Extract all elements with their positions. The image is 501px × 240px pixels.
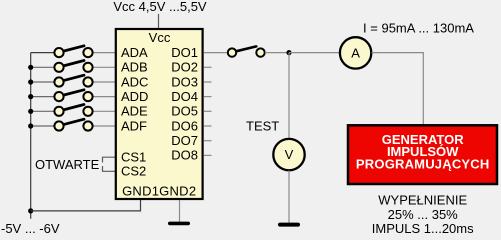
wire voltmeter to ground	[288, 171, 290, 224]
wire S4 to ADD	[94, 96, 116, 98]
svg-text:DO1: DO1	[171, 45, 198, 60]
junction on bus at GND return	[28, 208, 33, 213]
pin DO2 stub	[204, 66, 212, 68]
pin DO6 stub	[204, 125, 212, 127]
svg-text:ADC: ADC	[121, 74, 148, 89]
junction node at voltmeter tap	[286, 50, 291, 55]
wire bus to S4	[31, 96, 55, 98]
pin DO4 stub	[204, 96, 212, 98]
junction on bus at S5	[28, 109, 33, 114]
wire junction down to voltmeter	[288, 53, 290, 139]
switch S3	[54, 75, 92, 86]
svg-text:DO6: DO6	[171, 118, 198, 133]
junction on bus at S6	[28, 123, 33, 128]
svg-text:25% ... 35%: 25% ... 35%	[388, 207, 459, 222]
svg-text:WYPEŁNIENIE: WYPEŁNIENIE	[378, 193, 467, 208]
svg-text:GND1GND2: GND1GND2	[122, 184, 196, 199]
svg-text:CS1: CS1	[121, 150, 146, 165]
svg-text:OTWARTE: OTWARTE	[35, 157, 100, 172]
pin DO8 stub	[204, 154, 212, 156]
wire bus to S2	[31, 66, 55, 68]
junction on bus at S3	[28, 79, 33, 84]
wire S6 to ADF	[94, 125, 116, 127]
switch S1	[54, 46, 92, 57]
wire S2 to ADB	[94, 66, 116, 68]
switch S6	[54, 119, 92, 130]
junction on bus at S4	[28, 94, 33, 99]
svg-text:A: A	[351, 46, 360, 61]
svg-text:I = 95mA ... 130mA: I = 95mA ... 130mA	[363, 21, 474, 36]
wire junction to ammeter	[289, 52, 340, 54]
voltmeter V1	[273, 139, 304, 170]
wire S7 to junction	[265, 52, 289, 54]
svg-text:V: V	[285, 147, 294, 162]
pin DO7 stub	[204, 140, 212, 142]
node left bus (-5V rail)	[30, 53, 32, 219]
svg-text:IMPULS 1...20ms: IMPULS 1...20ms	[372, 221, 474, 236]
wire bus to S5	[31, 110, 55, 112]
junction on bus at S2	[28, 65, 33, 70]
svg-text:DO7: DO7	[171, 133, 198, 148]
wire S5 to ADE	[94, 110, 116, 112]
wire bus to S6	[31, 125, 55, 127]
svg-text:ADE: ADE	[121, 104, 148, 119]
wire bus to S3	[31, 81, 55, 83]
pin DO3 stub	[204, 81, 212, 83]
switch S7 (TEST)	[228, 46, 265, 56]
wire ammeter to generator	[372, 53, 424, 125]
switch S5	[54, 105, 92, 116]
wire S3 to ADC	[94, 81, 116, 83]
ground under voltmeter	[278, 223, 300, 227]
svg-text:ADF: ADF	[121, 118, 147, 133]
svg-text:DO3: DO3	[171, 74, 198, 89]
svg-text:Vcc: Vcc	[149, 30, 171, 45]
svg-text:CS2: CS2	[121, 164, 146, 179]
switch S4	[54, 90, 92, 101]
svg-text:-5V ... -6V: -5V ... -6V	[1, 221, 60, 236]
ground under GND2	[168, 222, 190, 226]
svg-text:ADD: ADD	[121, 89, 148, 104]
wire Vcc drop to IC	[158, 14, 160, 29]
wire S1 to ADA	[94, 52, 116, 54]
svg-text:PROGRAMUJĄCYCH: PROGRAMUJĄCYCH	[356, 157, 490, 172]
svg-text:DO4: DO4	[171, 89, 198, 104]
pin CS1 stub (open)	[103, 157, 116, 162]
ammeter A1	[340, 37, 371, 68]
svg-text:DO8: DO8	[171, 147, 198, 162]
wire DO1 to S7	[204, 52, 228, 54]
wire GND2 to ground	[179, 200, 181, 222]
generator block (GENERATOR IMPULSOW PROGRAMUJACYCH)	[348, 125, 497, 184]
svg-text:DO2: DO2	[171, 60, 198, 75]
switch S2	[54, 61, 92, 72]
svg-text:Vcc 4,5V ...5,5V: Vcc 4,5V ...5,5V	[113, 0, 207, 14]
pin CS2 stub (open)	[103, 166, 116, 171]
wire bus to S1	[31, 52, 55, 54]
svg-text:ADB: ADB	[121, 60, 148, 75]
svg-text:TEST: TEST	[246, 119, 279, 134]
svg-text:DO5: DO5	[171, 104, 198, 119]
wire bus junction to GND1 pin	[31, 200, 141, 211]
IC U1	[116, 29, 203, 199]
svg-text:ADA: ADA	[121, 45, 148, 60]
pin DO5 stub	[204, 110, 212, 112]
